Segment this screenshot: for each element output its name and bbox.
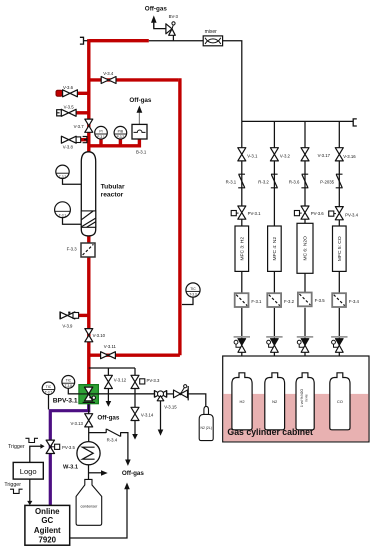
wire trigger line to PV-3.5: [30, 446, 41, 462]
controller MFC 5: CO: [333, 226, 347, 271]
node E connector V-3.8: [83, 137, 87, 143]
svg-text:V-3.2: V-3.2: [280, 154, 291, 159]
svg-text:condenser: condenser: [81, 504, 99, 508]
bubbler B-3.1: [132, 124, 147, 154]
svg-text:Trigger: Trigger: [8, 444, 25, 450]
valve V-3.9: [60, 312, 79, 329]
regulator R-3.4: [106, 429, 120, 443]
node R-3.4 vent arrow: [125, 460, 131, 466]
valve V-3.13: [70, 414, 92, 427]
valve BV-3: [166, 14, 179, 36]
instrument TIC T-3.8: [62, 376, 75, 389]
heat exchanger W-3.1: [63, 442, 100, 471]
svg-text:R-3.1: R-3.1: [226, 180, 237, 185]
valve V-3.10: [85, 329, 106, 342]
wire red into BPV-3.1: [87, 383, 90, 388]
svg-text:BPV-3.1: BPV-3.1: [53, 397, 78, 404]
svg-text:T-3.2: T-3.2: [59, 175, 66, 179]
filter F-3.3: [67, 243, 95, 257]
svg-text:Trigger: Trigger: [4, 482, 21, 488]
svg-text:GC: GC: [41, 516, 53, 525]
svg-text:TIC: TIC: [66, 379, 72, 383]
svg-text:reactor: reactor: [101, 192, 124, 199]
instrument PI P-3.1: [95, 126, 108, 139]
reactor tubular reactor: [81, 152, 125, 236]
svg-text:MFC 4: N2: MFC 4: N2: [272, 237, 278, 261]
cylinder N2: [265, 373, 285, 430]
wire manifold header: [242, 120, 353, 122]
wire gas column 4: [338, 121, 340, 372]
node off-gas arrow top-left: [145, 5, 168, 27]
svg-text:Off-gas: Off-gas: [129, 97, 152, 104]
svg-text:N2 (2L): N2 (2L): [201, 426, 212, 430]
svg-text:R-3.4: R-3.4: [107, 437, 118, 442]
cylinder CO: [330, 373, 350, 430]
wire red P-3.2 stub: [119, 139, 122, 146]
wire T-3.7 stem: [48, 395, 50, 410]
svg-text:V-3.5: V-3.5: [64, 104, 75, 109]
wire connector stub top left: [84, 40, 88, 42]
node E connector V-3.5: [57, 110, 61, 116]
svg-text:V-3.12: V-3.12: [114, 377, 127, 382]
svg-text:V-3.10: V-3.10: [93, 333, 106, 338]
cylinder N2 (2L): [199, 406, 213, 440]
svg-text:P-2035: P-2035: [320, 180, 334, 185]
svg-text:F-3.1: F-3.1: [251, 299, 262, 304]
node sample arrow right: [101, 470, 108, 475]
valve cylinder valve column 1: [234, 337, 250, 352]
valve PV-3.1: [231, 206, 261, 219]
wire T-3.3 connection: [182, 297, 193, 304]
svg-text:B-3.1: B-3.1: [136, 150, 147, 155]
wire needle valve to N2 bottle: [188, 394, 206, 407]
cylinder N2O in He: [296, 373, 314, 430]
wire red V-3.9 stub: [79, 314, 89, 317]
logo control box: [13, 462, 43, 479]
wire BV-3 offgas elbow: [154, 23, 166, 29]
instrument TI T-3.2: [56, 165, 69, 179]
svg-text:V-3.7: V-3.7: [74, 124, 85, 129]
svg-text:BV-3: BV-3: [169, 14, 179, 19]
valve V-3.8: [61, 136, 80, 149]
regulator R-3.6: [289, 174, 309, 188]
svg-text:V-3.14: V-3.14: [141, 412, 154, 417]
wire sample takeoff arrow line: [89, 472, 102, 474]
svg-text:V-3.8: V-3.8: [63, 144, 74, 149]
valve PV-3.3: [131, 375, 160, 388]
valve V-3.16: [335, 148, 356, 161]
valve V-3.11: [101, 344, 117, 359]
instrument TI T-3.1: [55, 202, 71, 218]
svg-text:V-3.1: V-3.1: [247, 154, 258, 159]
wire gas column 1: [241, 121, 243, 372]
svg-text:P-3.2: P-3.2: [117, 135, 125, 139]
svg-text:PIB: PIB: [118, 129, 124, 133]
wire red V-3.4 bypass top: [89, 78, 179, 81]
svg-text:P-3.1: P-3.1: [97, 135, 105, 139]
svg-text:MFC 3: H2: MFC 3: H2: [240, 237, 246, 261]
valve PV-3.5: [46, 440, 75, 453]
node V-3.12 vent arrow: [106, 401, 112, 407]
node GC offgas arrow up: [124, 483, 130, 490]
svg-text:PV-3.5: PV-3.5: [62, 445, 76, 450]
svg-text:V-3.4: V-3.4: [103, 71, 114, 76]
wire offgas header to mixer: [149, 40, 203, 42]
cabinet gas cylinder cabinet box: [223, 356, 369, 442]
regulator R-3.2: [258, 174, 278, 188]
svg-text:V-3.16: V-3.16: [343, 154, 356, 159]
valve V-3.12: [104, 375, 126, 388]
svg-text:T-3.7: T-3.7: [45, 391, 52, 395]
wire red V-3.5 stub: [76, 111, 89, 114]
wire V-3.15 to needle valve: [167, 393, 174, 395]
svg-text:in He: in He: [305, 394, 309, 402]
node trigger arrow to PV-3.5: [40, 444, 44, 449]
svg-text:W-3.1: W-3.1: [63, 465, 78, 471]
svg-text:PV-3.1: PV-3.1: [248, 211, 262, 216]
svg-text:MFC 5: CO: MFC 5: CO: [337, 236, 343, 261]
node pipe connector top-left: [80, 37, 84, 44]
valve V-3.7: [74, 119, 93, 132]
wire red V-3.8 stub: [80, 138, 89, 141]
wire red left main vertical: [87, 39, 90, 386]
valve V-3.5: [61, 104, 76, 116]
svg-text:T-3.3: T-3.3: [189, 293, 196, 297]
svg-text:PI: PI: [99, 129, 102, 133]
node B-3.1 offgas arrow: [129, 97, 152, 125]
svg-text:F-3.5: F-3.5: [315, 298, 326, 303]
wire mixer to manifold corner: [223, 41, 242, 122]
wire red top offgas header: [89, 39, 149, 42]
svg-text:PV-3.3: PV-3.3: [147, 378, 161, 383]
wire red right vertical: [178, 78, 181, 355]
svg-text:T-3.1: T-3.1: [59, 213, 66, 217]
filter F-3.4: [332, 293, 359, 307]
svg-text:mixer: mixer: [205, 29, 218, 35]
svg-text:Off-gas: Off-gas: [145, 5, 168, 12]
wire BPV outlet line: [68, 388, 154, 394]
cylinder H2: [232, 373, 252, 430]
node red inlet connector V-3.6: [56, 90, 62, 96]
svg-text:Off-gas: Off-gas: [97, 415, 120, 422]
controller MFC 4: N2: [268, 226, 282, 271]
instrument TIC T-3.7: [42, 382, 55, 395]
valve V-3.14: [131, 407, 154, 420]
instrument PI P-3.2: [114, 126, 127, 139]
node V-3.15 vent arrow: [158, 430, 164, 436]
svg-text:F-3.2: F-3.2: [284, 299, 295, 304]
wire purple GC sample line: [50, 402, 88, 506]
svg-text:7920: 7920: [39, 535, 57, 544]
svg-text:R-3.2: R-3.2: [258, 180, 269, 185]
controller MFC 3: H2: [235, 226, 249, 271]
analyzer online GC box: [25, 505, 70, 545]
valve PV-3.4: [329, 207, 359, 220]
svg-text:V-3.15: V-3.15: [164, 405, 177, 410]
svg-text:Tubular: Tubular: [101, 184, 125, 191]
regulator R-3.1: [226, 174, 246, 188]
wire red gauge header: [89, 139, 140, 146]
wire T-3.1 connection: [63, 218, 82, 225]
valve V-3.15 three-way: [154, 390, 177, 409]
wire R-3.4 branch left: [89, 432, 107, 434]
node trigger arrow to GC: [27, 501, 32, 505]
svg-text:Online: Online: [35, 507, 60, 516]
svg-text:V-3.17: V-3.17: [318, 153, 331, 158]
svg-text:V-3.6: V-3.6: [63, 85, 74, 90]
svg-text:H2: H2: [239, 399, 245, 404]
svg-text:R-3.6: R-3.6: [289, 180, 300, 185]
wire V-3.12 branch: [107, 368, 109, 401]
filter F-3.2: [267, 293, 294, 307]
svg-text:MC 6: N2O: MC 6: N2O: [303, 236, 309, 261]
wire GC offgas out: [70, 489, 127, 538]
wire gas column 2: [273, 121, 275, 372]
valve V-3.4: [101, 71, 116, 84]
wire red P-3.1 stub: [99, 139, 102, 146]
filter F-3.1: [235, 293, 262, 307]
svg-text:TIC: TIC: [190, 287, 196, 291]
regulator P-2035: [320, 174, 343, 188]
svg-text:Off-gas: Off-gas: [122, 470, 145, 477]
valve cylinder valve column 4: [331, 337, 347, 352]
wire BV-3 stem: [172, 35, 174, 41]
svg-text:Agilent: Agilent: [34, 526, 61, 535]
wire BPV to W-3.1: [88, 404, 90, 442]
valve BPV-3.1 back-pressure green box: [53, 385, 155, 405]
valve V-3.1: [238, 148, 258, 161]
valve PV-3.6: [294, 206, 324, 219]
valve cylinder valve column 3: [297, 337, 313, 352]
filter F-3.5: [298, 293, 325, 307]
wire T-3.2 connection: [63, 179, 82, 185]
condenser bottle: [76, 479, 102, 525]
svg-text:F-3.3: F-3.3: [67, 247, 78, 252]
svg-text:T-3.8: T-3.8: [65, 384, 72, 388]
valve cylinder valve column 2: [266, 337, 282, 352]
wire trigger line to GC: [29, 479, 31, 501]
svg-text:1 vol % N2O: 1 vol % N2O: [300, 389, 304, 407]
controller MC 6: N2O: [297, 223, 313, 273]
wire W-3.1 to condenser: [88, 465, 90, 480]
node trigger pulse symbol 1: [8, 438, 38, 450]
svg-text:Logo: Logo: [20, 467, 37, 476]
svg-text:PV-3.6: PV-3.6: [311, 211, 325, 216]
valve V-3.6: [63, 85, 78, 97]
valve V-3.17: [301, 148, 331, 161]
svg-text:PV-3.4: PV-3.4: [345, 212, 359, 217]
node pipe connector manifold end: [353, 119, 357, 126]
wire red bottom cross line: [89, 354, 180, 357]
svg-text:F-3.4: F-3.4: [349, 299, 360, 304]
valve check valve N2 purge: [174, 385, 189, 401]
wire V-3.15 vent: [160, 401, 162, 430]
wire vent header y368: [89, 367, 135, 369]
node V-3.14 vent arrow: [132, 434, 138, 440]
wire red V-3.6 stub: [76, 92, 89, 95]
svg-text:V-3.11: V-3.11: [104, 344, 117, 349]
svg-text:TIC: TIC: [46, 385, 52, 389]
svg-text:V-3.13: V-3.13: [70, 421, 83, 426]
mixer: [203, 29, 222, 46]
wire R-3.4 to offgas: [121, 433, 128, 460]
svg-text:N2: N2: [272, 399, 278, 404]
instrument TIC T-3.3: [186, 283, 200, 297]
wire gas column 3: [304, 121, 306, 372]
node trigger pulse symbol 2: [4, 482, 22, 493]
svg-text:CO: CO: [337, 399, 343, 404]
wire PV-3.3 branch: [134, 368, 136, 434]
valve V-3.2: [270, 148, 290, 161]
svg-text:V-3.9: V-3.9: [62, 324, 73, 329]
